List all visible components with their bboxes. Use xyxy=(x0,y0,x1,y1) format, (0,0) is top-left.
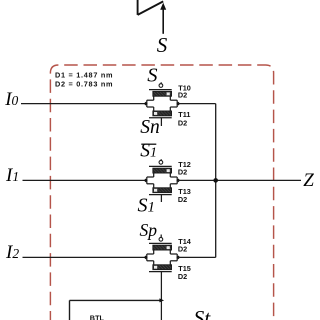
svg-text:I2: I2 xyxy=(5,242,19,263)
svg-text:Sn: Sn xyxy=(140,117,160,138)
svg-text:D2: D2 xyxy=(178,195,187,204)
inverter (partial, cropped at top) xyxy=(138,0,164,15)
transistor T12 (P-type, top) xyxy=(147,159,177,177)
svg-text:D2: D2 xyxy=(178,167,187,176)
svg-text:S: S xyxy=(147,64,157,86)
source/drain contacts of T12/T13 xyxy=(144,177,180,184)
wire I2 xyxy=(23,256,147,258)
wire I0 xyxy=(21,103,147,105)
svg-text:BTL: BTL xyxy=(90,313,105,320)
dashed boundary of multiplexer block xyxy=(50,65,273,320)
svg-text:S: S xyxy=(157,33,168,57)
BTL block (partial, cropped at bottom) xyxy=(70,300,161,320)
arrow from S to inverter xyxy=(162,9,164,34)
svg-text:D2: D2 xyxy=(178,91,187,100)
svg-text:D2 = 0.783 nm: D2 = 0.783 nm xyxy=(55,80,113,89)
arrowhead into T15 gate lead xyxy=(159,298,164,302)
pin labels T12/T13 xyxy=(178,160,191,204)
svg-text:I0: I0 xyxy=(4,89,18,110)
svg-text:I1: I1 xyxy=(5,165,19,186)
transistor T13 (N-type, bottom) xyxy=(147,184,177,202)
svg-text:D2: D2 xyxy=(178,118,187,127)
pin labels T10/T11 xyxy=(178,83,191,127)
wire Z output xyxy=(177,179,301,181)
svg-text:St: St xyxy=(194,306,212,320)
wire output bus (vertical) xyxy=(215,104,217,258)
note: CNT diameters D1/D2 xyxy=(55,71,113,89)
wire I1 xyxy=(23,179,147,181)
svg-text:Sp: Sp xyxy=(140,220,158,240)
svg-text:D1 = 1.487 nm: D1 = 1.487 nm xyxy=(55,71,113,80)
svg-text:D2: D2 xyxy=(178,272,187,281)
source/drain contacts of T10/T11 xyxy=(144,100,180,107)
transistor T10 (P-type, top) xyxy=(147,82,177,100)
svg-text:Z: Z xyxy=(303,170,314,191)
transistor T14 (P-type, top) xyxy=(147,235,177,255)
svg-text:D2: D2 xyxy=(178,244,187,253)
junction node at Z xyxy=(213,178,218,183)
transistor T15 (N-type, bottom) xyxy=(147,261,177,320)
transistor T11 (N-type, bottom) xyxy=(147,107,177,126)
pin labels T14/T15 xyxy=(178,237,192,281)
wire rail1 to bus xyxy=(177,103,216,105)
source/drain contacts of T14/T15 xyxy=(144,254,180,261)
wire rail3 to bus xyxy=(177,256,216,258)
